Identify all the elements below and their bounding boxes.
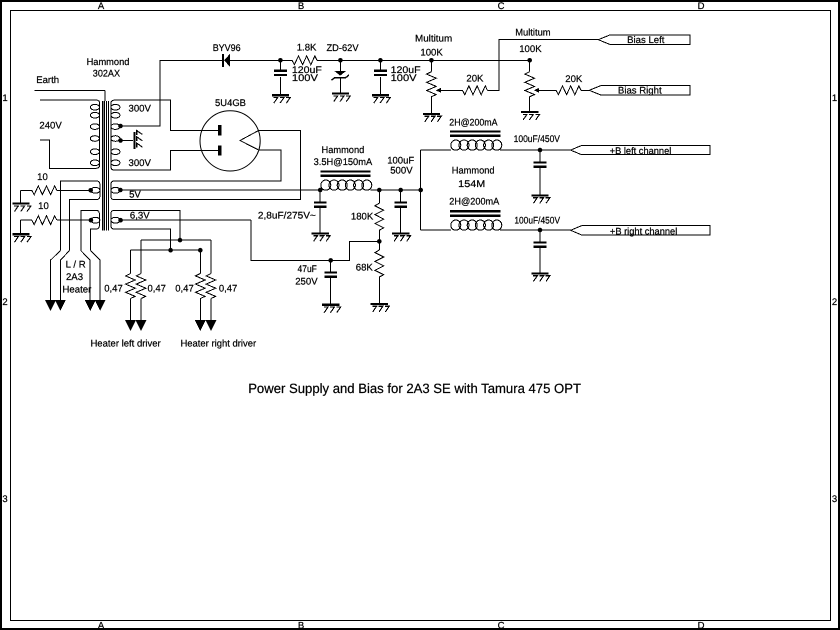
svg-text:300V: 300V xyxy=(129,158,152,169)
svg-text:Hammond: Hammond xyxy=(452,166,495,177)
svg-text:6,3V: 6,3V xyxy=(130,210,150,221)
svg-text:Power Supply and Bias for 2A3: Power Supply and Bias for 2A3 SE with Ta… xyxy=(248,381,581,396)
svg-text:B: B xyxy=(298,1,304,12)
svg-text:B: B xyxy=(298,621,304,630)
svg-text:Hammond: Hammond xyxy=(322,145,365,156)
svg-text:Bias Right: Bias Right xyxy=(618,85,662,96)
svg-text:100K: 100K xyxy=(420,48,443,59)
svg-text:300V: 300V xyxy=(129,103,152,114)
svg-text:Multitum: Multitum xyxy=(415,34,452,45)
svg-text:100V: 100V xyxy=(292,73,319,84)
svg-text:2,8uF/275V~: 2,8uF/275V~ xyxy=(258,210,316,221)
svg-text:20K: 20K xyxy=(466,73,484,84)
svg-text:Multitum: Multitum xyxy=(515,28,550,39)
svg-text:A: A xyxy=(98,621,105,630)
svg-text:1: 1 xyxy=(2,93,7,104)
svg-text:2: 2 xyxy=(832,297,837,308)
svg-text:68K: 68K xyxy=(356,263,374,274)
svg-text:100uF/450V: 100uF/450V xyxy=(514,216,560,227)
svg-text:250V: 250V xyxy=(295,277,318,288)
svg-text:3: 3 xyxy=(832,494,837,505)
svg-text:0,47: 0,47 xyxy=(104,284,123,295)
svg-text:1: 1 xyxy=(832,93,837,104)
svg-text:100V: 100V xyxy=(391,73,418,84)
svg-text:1.8K: 1.8K xyxy=(297,42,317,53)
svg-text:20K: 20K xyxy=(565,74,583,85)
svg-text:D: D xyxy=(698,1,705,12)
svg-text:10: 10 xyxy=(38,201,49,212)
svg-text:+B right channel: +B right channel xyxy=(610,227,677,238)
svg-text:0,47: 0,47 xyxy=(147,284,166,295)
svg-text:5U4GB: 5U4GB xyxy=(215,98,246,109)
svg-text:C: C xyxy=(498,621,505,630)
svg-text:Bias Left: Bias Left xyxy=(627,35,665,46)
svg-text:3: 3 xyxy=(2,494,7,505)
svg-text:+B left channel: +B left channel xyxy=(610,146,672,157)
svg-text:240V: 240V xyxy=(39,121,62,132)
svg-text:BYV96: BYV96 xyxy=(213,43,241,54)
svg-text:0,47: 0,47 xyxy=(219,284,238,295)
svg-text:A: A xyxy=(98,1,105,12)
svg-text:Heater right driver: Heater right driver xyxy=(180,339,256,350)
svg-text:3.5H@150mA: 3.5H@150mA xyxy=(314,157,373,168)
svg-text:5V: 5V xyxy=(129,189,141,200)
svg-text:Heater left driver: Heater left driver xyxy=(90,339,161,350)
svg-text:500V: 500V xyxy=(390,165,413,176)
svg-text:180K: 180K xyxy=(351,212,374,223)
svg-text:10: 10 xyxy=(37,172,48,183)
svg-text:Heater: Heater xyxy=(62,285,92,296)
svg-text:D: D xyxy=(698,621,705,630)
svg-text:47uF: 47uF xyxy=(298,264,317,275)
svg-text:302AX: 302AX xyxy=(93,69,121,80)
svg-text:2: 2 xyxy=(2,297,7,308)
svg-text:Earth: Earth xyxy=(36,75,59,86)
svg-text:2H@200mA: 2H@200mA xyxy=(449,196,500,207)
svg-text:2H@200mA: 2H@200mA xyxy=(449,118,498,129)
svg-text:ZD-62V: ZD-62V xyxy=(326,43,359,54)
svg-text:2A3: 2A3 xyxy=(66,272,83,283)
svg-text:100K: 100K xyxy=(519,44,542,55)
svg-text:0,47: 0,47 xyxy=(175,284,194,295)
svg-text:154M: 154M xyxy=(458,179,485,190)
svg-text:Hammond: Hammond xyxy=(87,57,130,68)
svg-text:L / R: L / R xyxy=(66,259,86,270)
svg-text:C: C xyxy=(498,1,505,12)
svg-text:100uF/450V: 100uF/450V xyxy=(514,134,561,145)
